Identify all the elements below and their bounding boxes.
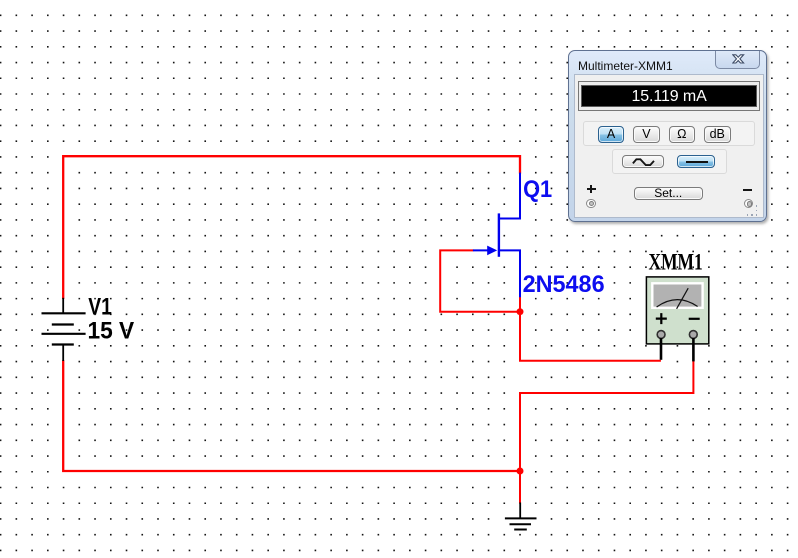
svg-text:2N5486: 2N5486 xyxy=(523,271,605,298)
junction node ground xyxy=(517,468,524,475)
battery V1 xyxy=(42,298,86,361)
display reading 15.119 mA xyxy=(582,88,756,106)
dialog title text xyxy=(578,59,673,73)
multimeter XMM1 icon xyxy=(646,277,708,344)
button Ohm xyxy=(669,126,695,143)
dialog resize grip xyxy=(747,214,749,216)
transistor Q1 (N-JFET) xyxy=(473,173,520,298)
wire multimeter minus terminal to ground node xyxy=(520,361,693,470)
button AC (sine) xyxy=(622,155,664,168)
svg-text:XMM1: XMM1 xyxy=(649,249,703,274)
multimeter dialog window Multimeter-XMM1 xyxy=(568,50,767,222)
dialog plus terminal label xyxy=(587,188,596,190)
wire battery positive to Q1 drain (top loop) xyxy=(63,156,520,299)
dialog minus terminal jack xyxy=(744,199,753,208)
dialog plus terminal jack xyxy=(586,199,595,208)
button Set... xyxy=(634,187,703,200)
button A (selected) xyxy=(598,126,624,143)
junction node source/gate xyxy=(517,308,524,315)
svg-text:15 V: 15 V xyxy=(88,318,135,345)
wire battery negative to ground node (bottom loop) xyxy=(63,360,520,471)
dialog mode group box xyxy=(583,121,755,146)
button DC (selected) xyxy=(677,155,716,168)
ground lead xyxy=(519,503,521,519)
svg-text:Q1: Q1 xyxy=(523,176,552,203)
wire Q1 source to multimeter plus terminal xyxy=(520,296,661,360)
button dB xyxy=(704,126,731,143)
svg-text:V1: V1 xyxy=(88,294,112,321)
ground symbol xyxy=(505,518,537,529)
wire ground node stub xyxy=(519,471,521,504)
wire gate loop (gate to source node) xyxy=(440,250,519,311)
multimeter plus lead xyxy=(660,338,663,360)
dialog minus terminal label xyxy=(743,189,752,191)
dialog waveform group box xyxy=(612,149,726,174)
button V xyxy=(633,126,659,143)
dialog close button xyxy=(715,51,761,70)
gate arrow of Q1 xyxy=(487,246,497,256)
multimeter minus lead xyxy=(692,338,695,361)
dialog client area xyxy=(574,74,764,218)
dialog LCD display xyxy=(578,81,760,110)
